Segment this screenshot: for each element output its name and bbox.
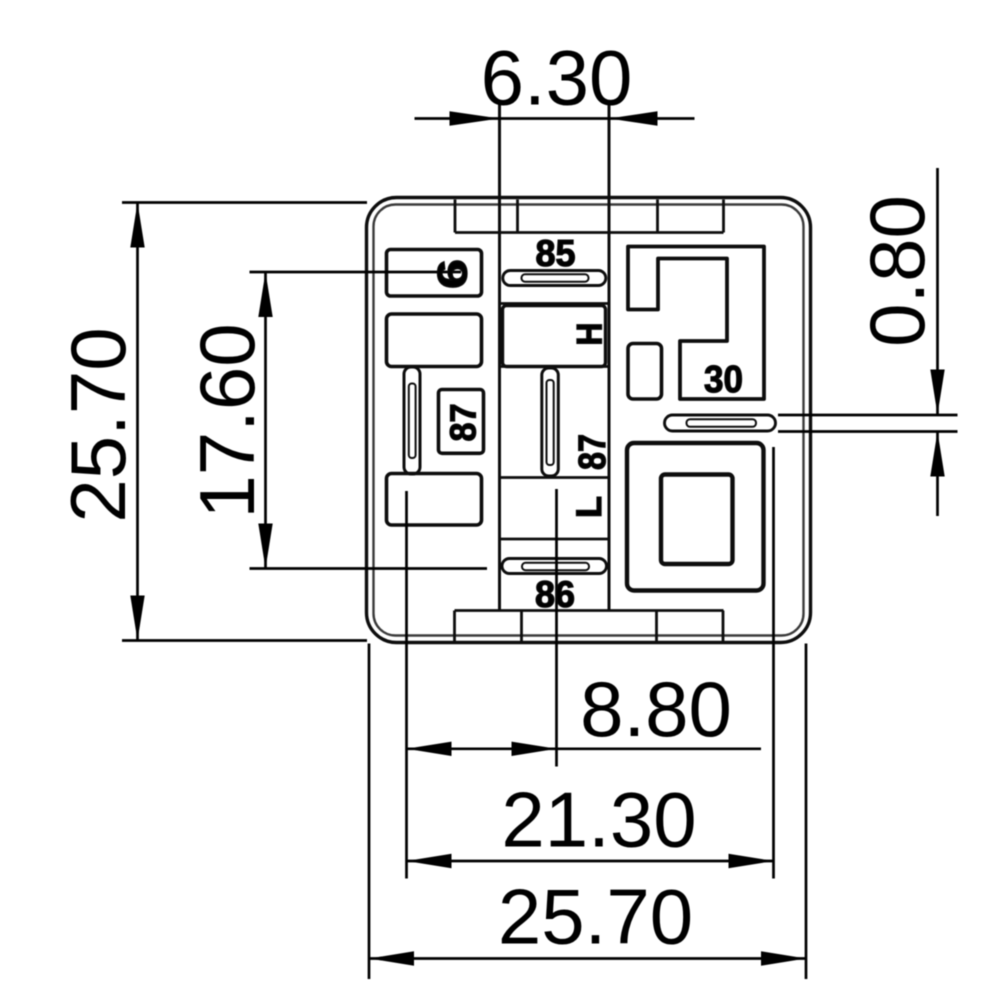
- svg-text:0.80: 0.80: [853, 195, 941, 347]
- svg-text:87: 87: [443, 404, 484, 442]
- svg-text:L: L: [570, 496, 609, 518]
- svg-text:87: 87: [572, 434, 614, 470]
- svg-text:H: H: [571, 323, 610, 346]
- svg-text:6: 6: [429, 259, 476, 289]
- svg-text:21.30: 21.30: [501, 776, 696, 864]
- svg-text:8.80: 8.80: [580, 665, 732, 753]
- svg-text:85: 85: [536, 233, 576, 274]
- svg-text:17.60: 17.60: [183, 323, 271, 518]
- svg-text:86: 86: [535, 574, 575, 615]
- svg-text:30: 30: [704, 359, 743, 401]
- svg-text:25.70: 25.70: [54, 327, 142, 522]
- svg-text:6.30: 6.30: [481, 34, 633, 122]
- svg-text:25.70: 25.70: [498, 873, 693, 961]
